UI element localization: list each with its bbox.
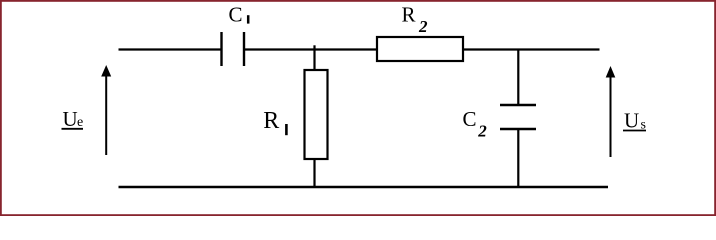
wire top-right segment [463,48,600,50]
node junction R1 branch [313,45,315,70]
wire C2 branch lower [517,130,519,187]
capacitor C1 right plate [243,32,245,66]
label R1 [263,108,286,135]
svg-text:U: U [624,109,639,133]
capacitor C2 top plate [500,104,536,106]
wire top-middle segment [245,48,377,50]
resistor R2 [377,37,463,61]
capacitor C2 bottom plate [500,128,536,130]
wire R1 to bottom [313,159,315,187]
wire top-left segment [119,48,222,50]
svg-text:R: R [263,108,279,134]
label Ue [62,107,84,131]
svg-text:C: C [463,107,477,131]
arrow Us [606,66,616,157]
arrow Ue [101,65,111,155]
svg-text:C: C [229,3,243,27]
label C2 [463,107,488,141]
resistor R1 [305,70,328,159]
capacitor C1 left plate [220,32,222,66]
label C1 [229,3,249,27]
svg-text:2: 2 [477,122,487,141]
wire C2 branch upper [517,50,519,105]
label Us [623,109,646,133]
svg-text:U: U [63,107,78,131]
wire bottom segment [119,186,609,188]
svg-text:R: R [402,3,416,27]
label R2 [402,3,429,37]
svg-text:2: 2 [418,17,428,36]
